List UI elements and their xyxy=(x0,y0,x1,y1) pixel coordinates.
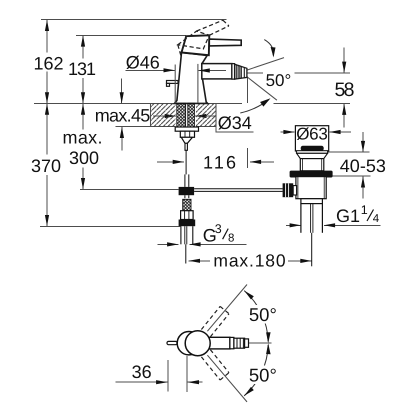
svg-text:max.: max. xyxy=(63,128,103,148)
svg-text:3: 3 xyxy=(215,222,222,236)
svg-text:162: 162 xyxy=(34,53,64,73)
svg-text:max.180: max.180 xyxy=(213,250,285,270)
svg-text:300: 300 xyxy=(69,148,99,168)
svg-text:58: 58 xyxy=(335,79,355,101)
svg-text:50°: 50° xyxy=(249,304,277,325)
svg-text:Ø34: Ø34 xyxy=(218,113,252,133)
svg-text:36: 36 xyxy=(132,362,152,382)
svg-text:Ø46: Ø46 xyxy=(126,52,160,72)
svg-text:50°: 50° xyxy=(249,365,277,386)
svg-text:40-53: 40-53 xyxy=(340,156,386,176)
svg-text:Ø63: Ø63 xyxy=(296,124,328,143)
svg-text:1: 1 xyxy=(361,203,368,217)
svg-text:116: 116 xyxy=(203,153,236,173)
svg-text:max.45: max.45 xyxy=(95,105,151,125)
svg-text:G1: G1 xyxy=(336,206,360,226)
svg-text:8: 8 xyxy=(228,233,234,245)
svg-text:4: 4 xyxy=(373,213,380,225)
svg-text:370: 370 xyxy=(31,156,61,176)
svg-text:50°: 50° xyxy=(266,71,292,90)
svg-text:131: 131 xyxy=(68,59,96,79)
